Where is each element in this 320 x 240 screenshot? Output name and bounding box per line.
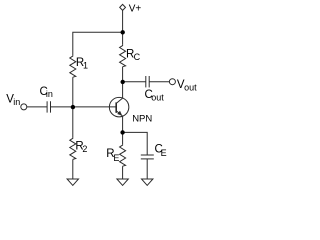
resistor RC (120, 45, 126, 67)
transistor emitter diagonal (116, 111, 122, 116)
wire RC top lead (122, 32, 124, 44)
terminal V+ (120, 4, 126, 10)
svg-text:V+: V+ (129, 4, 142, 15)
wire collector rail (122, 67, 124, 98)
svg-text:2: 2 (82, 144, 87, 154)
svg-text:in: in (13, 97, 20, 107)
node dot emitter (120, 130, 124, 134)
svg-text:NPN: NPN (132, 114, 152, 125)
wire emitter junction to CE branch (123, 132, 148, 155)
wire R2 to ground (72, 159, 74, 179)
svg-text:E: E (113, 153, 119, 163)
svg-text:out: out (184, 82, 197, 92)
capacitor Cout (145, 76, 147, 87)
wire RE to ground (122, 166, 124, 179)
resistor RE (120, 144, 126, 166)
wire Cin to base (51, 106, 116, 108)
wire V+ stem (122, 10, 124, 32)
capacitor Cin (46, 101, 48, 112)
ground below RE (117, 179, 128, 185)
svg-text:out: out (151, 92, 164, 102)
node dot RC/Cout (121, 80, 125, 84)
node dot base (71, 105, 75, 109)
terminal Vout (169, 79, 175, 85)
wire Vin to Cin (27, 106, 47, 108)
transistor base bar (115, 102, 117, 112)
svg-text:C: C (134, 52, 141, 62)
svg-text:1: 1 (83, 60, 88, 70)
wire Cout to Vout (149, 81, 169, 83)
ground below CE (142, 179, 153, 185)
node dot top rail (121, 30, 125, 34)
svg-text:E: E (161, 148, 167, 158)
ground below R2 (67, 179, 78, 185)
capacitor CE (141, 154, 154, 156)
transistor Q1 circle (109, 97, 129, 117)
resistor R1 (70, 55, 76, 77)
wire left rail mid (72, 77, 74, 137)
terminal Vin (21, 104, 27, 110)
wire emitter junction to RE (122, 132, 124, 144)
wire top rail (73, 32, 123, 55)
resistor R2 (70, 137, 76, 159)
transistor collector diagonal (116, 98, 122, 103)
wire RC junction to Cout (123, 81, 146, 83)
wire CE to ground (146, 159, 148, 179)
wire emitter (122, 116, 124, 132)
svg-text:in: in (46, 89, 53, 99)
transistor emitter arrowhead (117, 111, 122, 116)
